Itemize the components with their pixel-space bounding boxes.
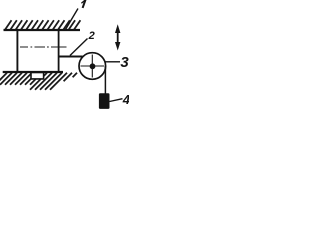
leader 3: [105, 61, 121, 63]
svg-text:2: 2: [88, 30, 95, 42]
svg-text:4: 4: [122, 92, 129, 107]
right post: [58, 30, 60, 73]
label 1: [83, 0, 86, 8]
leader 2: [70, 39, 88, 56]
crosshair: [81, 55, 105, 78]
ceiling line: [4, 29, 81, 31]
pulley circle 3: [79, 53, 106, 80]
leader 1: [66, 9, 79, 30]
hub: [90, 63, 96, 69]
weight 4: [99, 93, 110, 109]
left post: [16, 30, 18, 72]
rope: [104, 66, 106, 94]
leader 4: [110, 99, 123, 102]
double arrow: [117, 32, 119, 44]
floor line: [3, 71, 63, 73]
arm (rod 2): [58, 55, 83, 57]
ceiling hatch: [5, 20, 80, 30]
svg-text:3: 3: [120, 54, 129, 71]
notch in floor: [31, 73, 44, 79]
floor hatch: [0, 73, 77, 90]
center dash-dot line: [20, 46, 67, 48]
